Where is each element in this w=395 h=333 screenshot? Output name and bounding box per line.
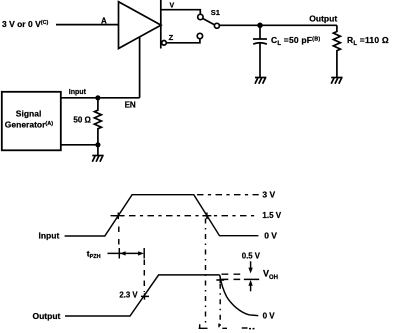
svg-text:50 Ω: 50 Ω [73,116,91,125]
svg-text:Signal: Signal [16,109,42,119]
svg-text:2.3 V: 2.3 V [119,291,138,300]
svg-text:0 V: 0 V [263,312,276,321]
svg-text:Input: Input [69,89,87,96]
svg-text:Generator(A): Generator(A) [5,120,53,130]
svg-text:VOH: VOH [263,268,278,281]
svg-text:A: A [101,17,107,26]
svg-text:S1: S1 [211,8,220,17]
svg-text:3 V: 3 V [262,190,275,200]
svg-text:tPZH: tPZH [87,249,101,260]
svg-text:1.5 V: 1.5 V [262,211,281,220]
svg-text:Output: Output [309,14,337,24]
svg-text:0 V: 0 V [264,230,277,240]
svg-text:0.5 V: 0.5 V [242,251,261,260]
svg-text:3 V or 0 V(C): 3 V or 0 V(C) [2,19,49,29]
svg-text:Z: Z [169,33,174,42]
svg-text:Output: Output [33,311,61,321]
svg-text:EN: EN [125,100,136,109]
svg-text:V: V [170,3,175,10]
svg-text:CL =50 pF(B): CL =50 pF(B) [271,35,320,47]
svg-text:RL =110 Ω: RL =110 Ω [347,35,389,47]
svg-text:Input: Input [39,230,60,240]
